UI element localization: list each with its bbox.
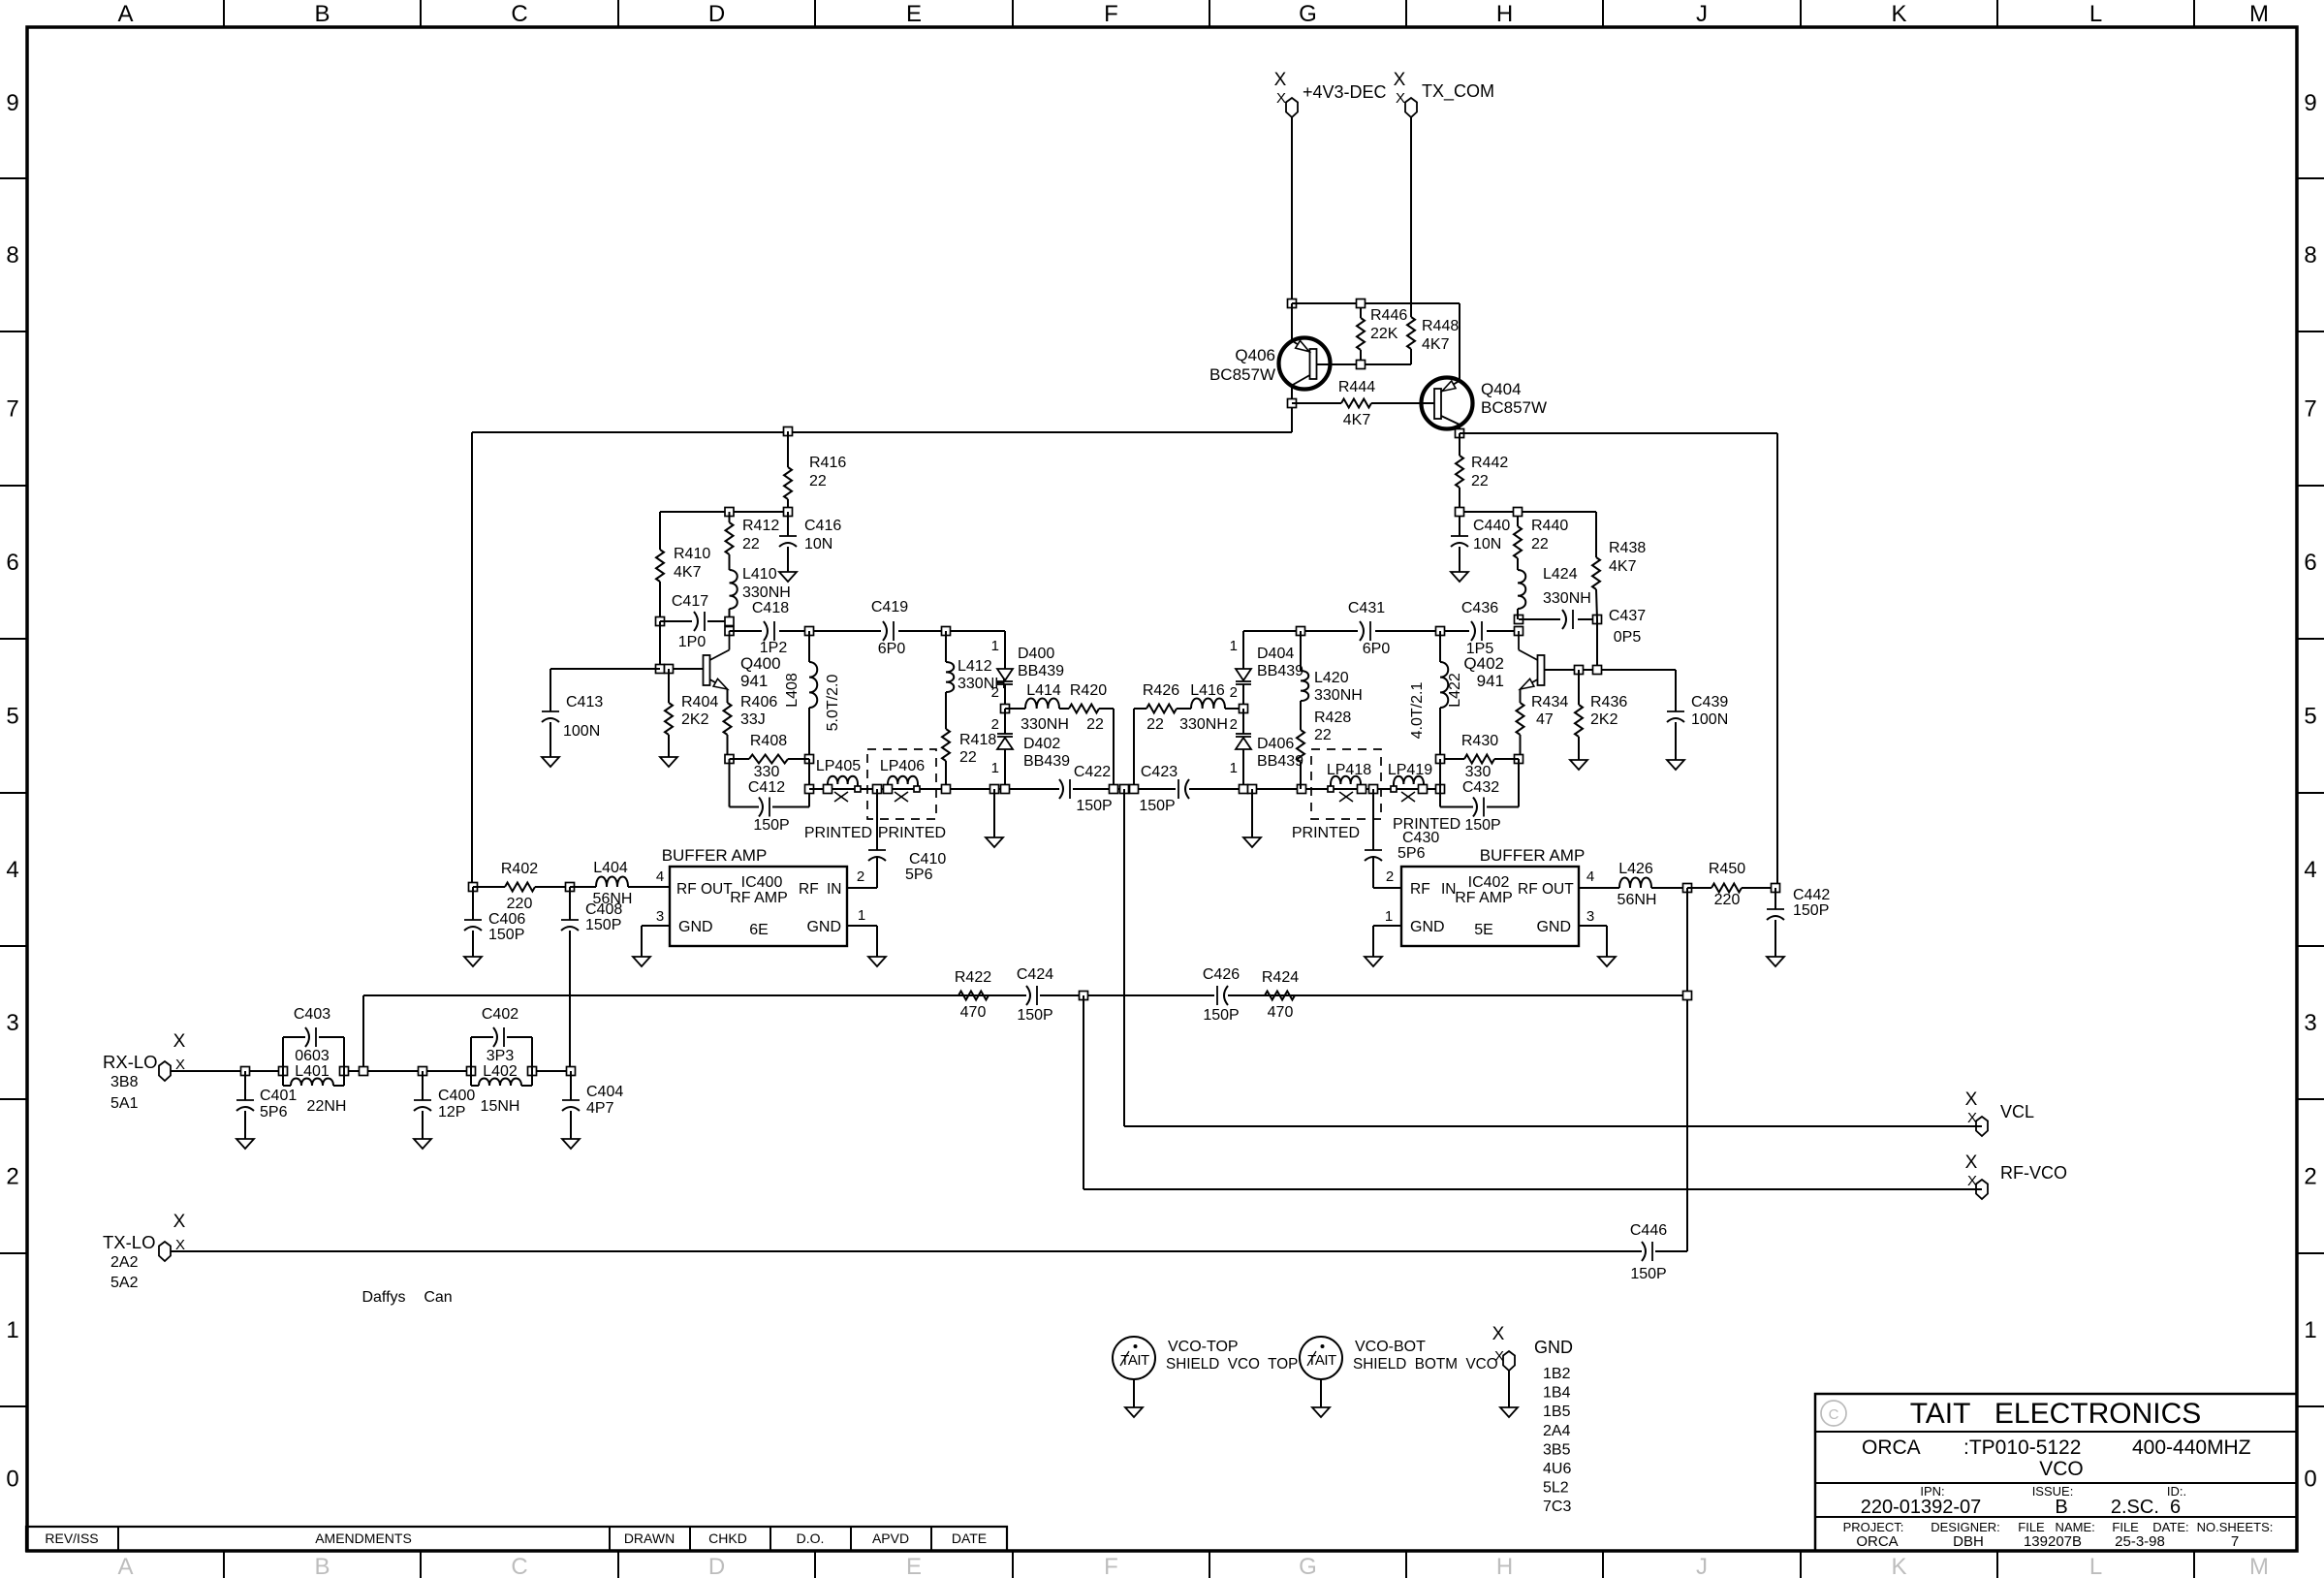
svg-text:X: X bbox=[173, 1212, 186, 1232]
svg-text:C416: C416 bbox=[804, 518, 841, 534]
node D406 rail junction bbox=[1240, 785, 1248, 794]
svg-text:R446: R446 bbox=[1370, 307, 1407, 324]
svg-text:2: 2 bbox=[1386, 868, 1394, 885]
node C436 junctions bbox=[1515, 615, 1523, 624]
svg-text:22: 22 bbox=[1471, 473, 1489, 489]
svg-text:Q406: Q406 bbox=[1235, 346, 1275, 364]
svg-text:22: 22 bbox=[809, 473, 827, 489]
svg-text:5P6: 5P6 bbox=[260, 1104, 288, 1120]
svg-text::TP010-5122: :TP010-5122 bbox=[1963, 1436, 2081, 1459]
wire RF-VCO vertical bbox=[1083, 995, 1084, 1189]
connector +4V3-DEC bbox=[1286, 98, 1298, 117]
svg-text:22: 22 bbox=[1146, 716, 1164, 733]
inductor L414 bbox=[1005, 708, 1025, 710]
node R406 bottom junction bbox=[725, 755, 734, 764]
resistor R446 bbox=[1360, 303, 1362, 318]
svg-text:C413: C413 bbox=[566, 694, 603, 710]
svg-text:1B5: 1B5 bbox=[1543, 1404, 1571, 1420]
capacitor C432 loop bbox=[1439, 759, 1441, 807]
node R450 out junction bbox=[1772, 884, 1780, 893]
svg-text:3B5: 3B5 bbox=[1543, 1441, 1571, 1458]
wire RX-LO line bbox=[171, 1070, 283, 1072]
connector TX_COM bbox=[1405, 98, 1417, 117]
svg-text:R430: R430 bbox=[1461, 733, 1498, 749]
svg-text:DBH: DBH bbox=[1953, 1533, 1984, 1550]
wire C430 from rail bbox=[1372, 789, 1374, 850]
svg-text:+4V3-DEC: +4V3-DEC bbox=[1303, 82, 1387, 102]
svg-text:4: 4 bbox=[656, 868, 664, 885]
svg-text:C401: C401 bbox=[260, 1088, 297, 1104]
resistor R430 bbox=[1440, 758, 1464, 760]
svg-text:4P7: 4P7 bbox=[586, 1100, 614, 1117]
svg-text:L414: L414 bbox=[1026, 682, 1061, 699]
ground C406 bbox=[464, 957, 482, 966]
svg-text:C406: C406 bbox=[488, 911, 525, 928]
svg-text:330NH: 330NH bbox=[1179, 716, 1228, 733]
svg-text:M: M bbox=[2249, 1, 2269, 27]
wire C413 branch bbox=[550, 668, 660, 670]
svg-text:D406: D406 bbox=[1257, 736, 1294, 752]
wire right top bus bbox=[1460, 432, 1777, 434]
svg-text:2: 2 bbox=[1230, 684, 1238, 701]
svg-text:X: X bbox=[1276, 90, 1286, 107]
svg-text:R428: R428 bbox=[1314, 710, 1351, 726]
ground R404 bbox=[660, 757, 677, 767]
node D404 mid junction bbox=[1240, 705, 1248, 713]
svg-text:4: 4 bbox=[6, 857, 18, 883]
svg-text:4: 4 bbox=[2304, 857, 2316, 883]
resistor R436 bbox=[1578, 670, 1580, 705]
svg-text:A: A bbox=[117, 1554, 133, 1578]
svg-text:Q400: Q400 bbox=[740, 654, 781, 673]
wire R426 to rail bbox=[1133, 709, 1135, 789]
svg-text:IC400: IC400 bbox=[741, 874, 783, 891]
svg-text:941: 941 bbox=[1477, 672, 1504, 690]
resistor R448 bbox=[1407, 317, 1415, 349]
svg-text:PROJECT:: PROJECT: bbox=[1843, 1520, 1904, 1534]
svg-text:R436: R436 bbox=[1590, 694, 1627, 710]
svg-text:4: 4 bbox=[1586, 868, 1594, 885]
svg-text:VCO-TOP: VCO-TOP bbox=[1168, 1339, 1239, 1355]
resistor R426 bbox=[1134, 708, 1146, 710]
node feedback row1027 junction bbox=[1683, 992, 1692, 1000]
wire IC402 gnd right bbox=[1579, 925, 1607, 927]
svg-text:D.O.: D.O. bbox=[797, 1531, 825, 1546]
svg-text:7: 7 bbox=[6, 396, 18, 423]
resistor R440 bbox=[1517, 512, 1519, 526]
svg-text:L424: L424 bbox=[1543, 566, 1578, 583]
svg-text:C439: C439 bbox=[1691, 694, 1728, 710]
svg-text:R440: R440 bbox=[1531, 518, 1568, 534]
svg-text:IN: IN bbox=[827, 881, 842, 898]
svg-text:IN: IN bbox=[1441, 881, 1457, 898]
svg-text:330NH: 330NH bbox=[1314, 687, 1363, 704]
svg-text:10N: 10N bbox=[1473, 536, 1501, 552]
ground C442 bbox=[1767, 957, 1784, 966]
svg-text:X: X bbox=[1965, 1089, 1978, 1110]
svg-text:L426: L426 bbox=[1618, 861, 1653, 877]
svg-text:3: 3 bbox=[656, 908, 664, 925]
transistor Q404 bbox=[1422, 378, 1473, 429]
capacitor C413 bbox=[550, 669, 551, 711]
wire R420 to rail bbox=[1113, 709, 1115, 789]
svg-text:VCO: VCO bbox=[2039, 1458, 2084, 1480]
svg-text:C400: C400 bbox=[438, 1088, 475, 1104]
shield VCO-BOT symbol bbox=[1300, 1337, 1342, 1379]
transistor Q400 bbox=[704, 655, 710, 685]
svg-text:X: X bbox=[1394, 70, 1406, 90]
svg-text:220: 220 bbox=[507, 896, 533, 912]
svg-text:J: J bbox=[1696, 1554, 1708, 1578]
svg-text:150P: 150P bbox=[1076, 798, 1112, 814]
svg-text:B: B bbox=[314, 1554, 330, 1578]
svg-text:BC857W: BC857W bbox=[1209, 365, 1275, 384]
svg-text:ORCA: ORCA bbox=[1856, 1533, 1898, 1550]
svg-text:GND: GND bbox=[1536, 919, 1571, 935]
node rail-L408 junction bbox=[805, 785, 814, 794]
svg-text:L408: L408 bbox=[784, 673, 801, 708]
capacitor C423 bbox=[1178, 779, 1179, 799]
svg-text:R450: R450 bbox=[1709, 861, 1745, 877]
capacitor C446 bbox=[1642, 1242, 1646, 1261]
svg-text:4U6: 4U6 bbox=[1543, 1461, 1571, 1477]
svg-text:56NH: 56NH bbox=[1617, 892, 1657, 908]
svg-text:R408: R408 bbox=[750, 733, 787, 749]
svg-text:ORCA: ORCA bbox=[1862, 1436, 1921, 1459]
svg-text:X: X bbox=[1396, 90, 1405, 107]
node L412 top junction bbox=[942, 627, 951, 636]
svg-text:3: 3 bbox=[2304, 1010, 2316, 1036]
ground IC400 left bbox=[633, 957, 650, 966]
wire row1027 bbox=[363, 994, 1026, 996]
wire RF-VCO horizontal bbox=[1083, 1188, 1982, 1190]
svg-text:10N: 10N bbox=[804, 536, 832, 552]
svg-text:1: 1 bbox=[858, 907, 865, 924]
inductor L422 printed bbox=[1439, 631, 1441, 662]
svg-text:PRINTED: PRINTED bbox=[878, 825, 946, 841]
svg-text:R406: R406 bbox=[740, 694, 777, 710]
svg-text:0603: 0603 bbox=[295, 1048, 330, 1064]
svg-text:X: X bbox=[173, 1031, 186, 1052]
resistor R420 bbox=[1059, 708, 1069, 710]
svg-text:1: 1 bbox=[2304, 1317, 2316, 1343]
ground rail left bbox=[990, 785, 999, 794]
ground IC402 left bbox=[1365, 957, 1382, 966]
node R446 bottom junction bbox=[1357, 361, 1366, 369]
svg-text:RF-VCO: RF-VCO bbox=[2000, 1163, 2067, 1183]
svg-text:470: 470 bbox=[1268, 1004, 1294, 1021]
wire R438 chain down bbox=[1596, 619, 1598, 670]
wire Q406 collector down bbox=[1291, 386, 1293, 433]
wire VCL horizontal bbox=[1124, 1125, 1982, 1127]
svg-text:139207B: 139207B bbox=[2024, 1533, 2082, 1550]
ground C401 bbox=[236, 1139, 254, 1149]
svg-text:R420: R420 bbox=[1070, 682, 1107, 699]
inductor L410 bbox=[730, 570, 738, 609]
svg-text:RF: RF bbox=[1410, 881, 1430, 898]
node L408 bottom junction bbox=[805, 755, 814, 764]
svg-text:2K2: 2K2 bbox=[1590, 711, 1618, 728]
capacitor C417 row bbox=[656, 617, 665, 626]
svg-text:TAIT: TAIT bbox=[1120, 1352, 1149, 1369]
svg-text:2A4: 2A4 bbox=[1543, 1423, 1571, 1439]
svg-text:6: 6 bbox=[6, 550, 18, 576]
svg-text:Daffys: Daffys bbox=[361, 1289, 405, 1306]
resistor R412 bbox=[729, 512, 731, 522]
node D402 rail junction bbox=[1001, 785, 1010, 794]
wire left top bus bbox=[472, 431, 1292, 433]
bottom column label strip bbox=[223, 1551, 225, 1578]
node L420 top junction bbox=[1297, 627, 1305, 636]
svg-text:B: B bbox=[314, 1, 330, 27]
svg-text:330NH: 330NH bbox=[1021, 716, 1069, 733]
svg-text:22NH: 22NH bbox=[307, 1098, 347, 1115]
svg-text:7: 7 bbox=[2304, 396, 2316, 423]
svg-text:C431: C431 bbox=[1348, 600, 1385, 616]
svg-text:RF OUT: RF OUT bbox=[676, 881, 733, 898]
svg-text:150P: 150P bbox=[1203, 1007, 1239, 1024]
svg-text:R416: R416 bbox=[809, 455, 846, 471]
svg-text:330: 330 bbox=[754, 764, 780, 780]
node C401 junction bbox=[241, 1067, 250, 1076]
svg-text:IC402: IC402 bbox=[1468, 874, 1510, 891]
inductor LP406 bbox=[888, 776, 918, 789]
svg-text:0P5: 0P5 bbox=[1614, 629, 1642, 646]
svg-text:C426: C426 bbox=[1203, 966, 1240, 983]
svg-text:5E: 5E bbox=[1474, 922, 1493, 938]
svg-text:H: H bbox=[1496, 1554, 1513, 1578]
svg-text:5P6: 5P6 bbox=[1398, 845, 1426, 862]
svg-text:C436: C436 bbox=[1461, 600, 1498, 616]
inductor LP418 bbox=[1331, 776, 1361, 789]
svg-text:9: 9 bbox=[2304, 90, 2316, 116]
title block bbox=[1815, 1394, 2297, 1551]
ground C416 bbox=[779, 572, 797, 582]
svg-text:GND: GND bbox=[806, 919, 841, 935]
svg-text:C403: C403 bbox=[294, 1006, 330, 1023]
svg-text:CHKD: CHKD bbox=[708, 1531, 747, 1546]
svg-text:220-01392-07: 220-01392-07 bbox=[1861, 1497, 1982, 1518]
svg-text:X: X bbox=[1492, 1324, 1505, 1344]
inductor L404 bbox=[570, 886, 596, 888]
svg-text:E: E bbox=[906, 1, 922, 27]
node R402 junction bbox=[469, 883, 478, 892]
resistor R424 bbox=[1265, 992, 1295, 1000]
svg-text:1: 1 bbox=[1385, 908, 1393, 925]
resistor R444 bbox=[1292, 402, 1341, 404]
svg-text:L404: L404 bbox=[593, 860, 628, 876]
svg-text:22: 22 bbox=[1086, 716, 1104, 733]
capacitor C422 bbox=[1059, 779, 1063, 799]
svg-text:TX_COM: TX_COM bbox=[1422, 81, 1494, 102]
inductor L416 bbox=[1177, 708, 1191, 710]
svg-text:2: 2 bbox=[991, 716, 999, 733]
svg-text:BC857W: BC857W bbox=[1481, 398, 1547, 417]
svg-text:B: B bbox=[2055, 1497, 2067, 1518]
svg-text:Q402: Q402 bbox=[1463, 654, 1504, 673]
wire row528 right bbox=[1460, 511, 1596, 513]
node RF-VCO junction bbox=[1080, 992, 1088, 1000]
svg-text:R418: R418 bbox=[959, 732, 996, 748]
resistor R404 bbox=[668, 669, 670, 703]
svg-text:L401: L401 bbox=[295, 1063, 330, 1080]
wire row651 left bbox=[730, 630, 1006, 632]
svg-text:3B8: 3B8 bbox=[110, 1074, 139, 1090]
wire TX_COM down bbox=[1410, 116, 1412, 317]
resistor R442 bbox=[1459, 433, 1460, 456]
svg-text:R448: R448 bbox=[1422, 318, 1459, 334]
capacitor C412 loop bbox=[729, 759, 731, 807]
svg-text:1B4: 1B4 bbox=[1543, 1385, 1571, 1402]
svg-text:REV/ISS: REV/ISS bbox=[45, 1531, 98, 1546]
wire Q406 base row bbox=[1317, 363, 1411, 365]
svg-text:12P: 12P bbox=[438, 1104, 465, 1120]
ground C440 bbox=[1451, 572, 1468, 582]
node L422 top junction bbox=[1436, 627, 1445, 636]
svg-text:7C3: 7C3 bbox=[1543, 1499, 1571, 1515]
inductor LP419 bbox=[1394, 776, 1424, 789]
svg-text:C: C bbox=[511, 1, 527, 27]
capacitor C430 bbox=[1365, 849, 1382, 851]
svg-text:GND: GND bbox=[1410, 919, 1445, 935]
svg-text:1P0: 1P0 bbox=[678, 634, 707, 650]
printed inductor LP418 dashed box bbox=[1311, 749, 1381, 819]
right row label strip bbox=[2297, 177, 2324, 179]
svg-text:RF: RF bbox=[799, 881, 819, 898]
svg-text:R442: R442 bbox=[1471, 455, 1508, 471]
wire IC402 gnd left bbox=[1373, 925, 1401, 927]
node C417 junctions bbox=[725, 617, 734, 626]
transistor Q406 bbox=[1279, 338, 1331, 390]
svg-text:X: X bbox=[1494, 1348, 1504, 1365]
svg-text:D404: D404 bbox=[1257, 646, 1294, 662]
svg-text:150P: 150P bbox=[488, 927, 524, 943]
svg-text:DRAWN: DRAWN bbox=[624, 1531, 675, 1546]
svg-text:22K: 22K bbox=[1370, 326, 1398, 342]
node varactor mid junction bbox=[1001, 705, 1010, 713]
copyright symbol bbox=[1821, 1401, 1846, 1426]
svg-text:GND: GND bbox=[1534, 1338, 1573, 1357]
svg-text:25-3-98: 25-3-98 bbox=[2115, 1533, 2165, 1550]
svg-text:220: 220 bbox=[1714, 892, 1741, 908]
svg-text:150P: 150P bbox=[753, 817, 789, 834]
node R434 bottom junction bbox=[1515, 755, 1523, 764]
svg-text:C430: C430 bbox=[1402, 830, 1439, 846]
svg-text:9: 9 bbox=[6, 90, 18, 116]
svg-text:470: 470 bbox=[960, 1004, 987, 1021]
varactor D400 bbox=[1004, 631, 1006, 669]
svg-text:C422: C422 bbox=[1074, 764, 1111, 780]
node +4V3 junction bbox=[1288, 300, 1297, 308]
svg-text:1: 1 bbox=[6, 1317, 18, 1343]
svg-text:R438: R438 bbox=[1609, 540, 1646, 556]
varactor D406 bbox=[1242, 709, 1244, 734]
svg-text:100N: 100N bbox=[1691, 711, 1728, 728]
wire feedback vertical bbox=[1686, 888, 1688, 1251]
svg-text:BUFFER AMP: BUFFER AMP bbox=[662, 846, 768, 865]
capacitor C436 bbox=[1469, 621, 1487, 641]
svg-text:4K7: 4K7 bbox=[1343, 412, 1371, 428]
wire +4V3 to Q404 emitter branch bbox=[1292, 302, 1460, 304]
svg-text:5: 5 bbox=[6, 704, 18, 730]
svg-text:1: 1 bbox=[1230, 638, 1238, 654]
svg-text:8: 8 bbox=[6, 242, 18, 268]
svg-text:2: 2 bbox=[6, 1164, 18, 1190]
svg-text:AMENDMENTS: AMENDMENTS bbox=[315, 1531, 412, 1546]
svg-text:L: L bbox=[2089, 1, 2102, 27]
svg-text:VCO-BOT: VCO-BOT bbox=[1355, 1339, 1426, 1355]
capacitor C404 bbox=[570, 1071, 572, 1100]
ground rail right bbox=[1248, 785, 1257, 794]
svg-text:941: 941 bbox=[740, 672, 768, 690]
svg-text:7: 7 bbox=[2231, 1533, 2239, 1550]
printed inductor LP406 dashed box bbox=[867, 749, 936, 819]
svg-text:150P: 150P bbox=[1139, 798, 1175, 814]
svg-text:15NH: 15NH bbox=[481, 1098, 520, 1115]
wire C417 left leg down bbox=[659, 621, 661, 669]
capacitor C419 bbox=[881, 621, 898, 641]
svg-text:RX-LO: RX-LO bbox=[103, 1052, 158, 1072]
capacitor C406 bbox=[472, 887, 474, 920]
svg-text:56NH: 56NH bbox=[593, 891, 633, 907]
transistor Q402 bbox=[1538, 655, 1545, 685]
ground C439 bbox=[1667, 760, 1684, 770]
svg-text:LP418: LP418 bbox=[1327, 762, 1371, 778]
svg-text:E: E bbox=[906, 1554, 922, 1578]
svg-text:FILE NAME:: FILE NAME: bbox=[2018, 1520, 2094, 1534]
capacitor C437 bbox=[1560, 610, 1578, 629]
svg-text:BB439: BB439 bbox=[1023, 753, 1070, 770]
resistor R450 bbox=[1687, 887, 1712, 889]
svg-text:BB439: BB439 bbox=[1018, 663, 1064, 679]
connector RX-LO bbox=[159, 1061, 171, 1081]
svg-text:C440: C440 bbox=[1473, 518, 1510, 534]
svg-text:GND: GND bbox=[678, 919, 713, 935]
svg-text:L410: L410 bbox=[742, 566, 777, 583]
ground IC402 right bbox=[1598, 957, 1616, 966]
varactor D404 bbox=[1242, 631, 1244, 669]
ground IC400 right bbox=[868, 957, 886, 966]
node row528 junctions bbox=[725, 508, 734, 517]
svg-text:2: 2 bbox=[2304, 1164, 2316, 1190]
svg-text:330NH: 330NH bbox=[742, 584, 791, 601]
svg-text:SHIELD BOTM VCO: SHIELD BOTM VCO bbox=[1353, 1356, 1498, 1373]
svg-text:D: D bbox=[708, 1554, 725, 1578]
node R418 rail junction bbox=[942, 785, 951, 794]
svg-text:F: F bbox=[1104, 1554, 1118, 1578]
resistor R402 bbox=[473, 886, 505, 888]
svg-text:F: F bbox=[1104, 1, 1118, 27]
inductor LP405 bbox=[828, 776, 858, 789]
top column label strip bbox=[223, 0, 225, 27]
svg-text:FILE DATE:: FILE DATE: bbox=[2112, 1520, 2188, 1534]
ground VCO-BOT bbox=[1312, 1407, 1330, 1417]
svg-text:4K7: 4K7 bbox=[1609, 558, 1637, 575]
wire IC400 gnd right bbox=[847, 925, 877, 927]
node base junctions bbox=[656, 665, 665, 674]
svg-text:R412: R412 bbox=[742, 518, 779, 534]
ground R436 bbox=[1570, 760, 1587, 770]
svg-text:150P: 150P bbox=[1464, 817, 1500, 834]
svg-text:1: 1 bbox=[991, 638, 999, 654]
wire VCL vertical bbox=[1123, 789, 1125, 1126]
svg-text:33J: 33J bbox=[740, 711, 766, 728]
capacitor C431 bbox=[1358, 621, 1375, 641]
resistor R434 bbox=[1520, 689, 1522, 703]
svg-text:R422: R422 bbox=[955, 969, 991, 986]
wire row651 right bbox=[1243, 630, 1440, 632]
svg-text:330NH: 330NH bbox=[1543, 590, 1591, 607]
